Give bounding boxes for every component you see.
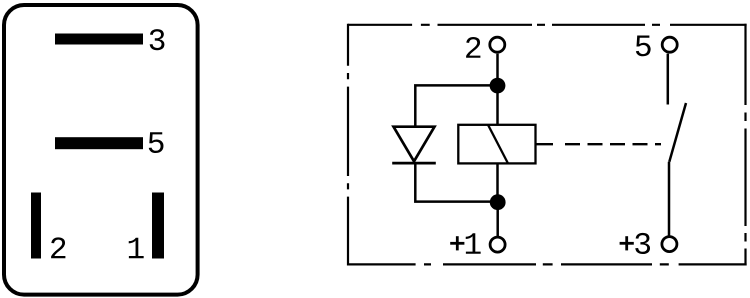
node A junction <box>490 78 506 94</box>
wire relay coil to node B <box>496 164 499 202</box>
pin label 2 <box>51 237 65 258</box>
terminal label +1 digit <box>466 233 481 254</box>
relay enclosure dash-dot boundary: right edge <box>744 24 746 266</box>
wire node A to relay coil <box>496 85 499 124</box>
terminal slot 3 <box>55 34 143 45</box>
terminal label +1 plus sign <box>450 236 464 250</box>
relay coil K1 <box>458 125 535 164</box>
terminal +3 <box>662 237 677 252</box>
wire node A to diode branch <box>415 85 497 125</box>
diode V1 <box>392 127 436 163</box>
relay enclosure dash-dot boundary: top edge <box>348 24 747 26</box>
terminal slot 2 <box>31 193 41 259</box>
terminal label 2 <box>466 37 480 58</box>
terminal label +3 digit <box>635 233 650 254</box>
wire terminal 5 to switch contact <box>667 54 670 105</box>
terminal 2 <box>490 37 505 52</box>
wire terminal 2 to node A <box>496 54 499 86</box>
terminal slot 1 <box>152 193 164 259</box>
wire switch to terminal +3 <box>668 162 671 237</box>
actuation link dashed line <box>536 143 661 145</box>
terminal label +3 plus sign <box>620 236 634 250</box>
terminal 5 <box>662 37 677 52</box>
node B junction <box>490 194 506 210</box>
switch S blade <box>669 103 686 162</box>
relay enclosure dash-dot boundary: left edge <box>347 24 349 266</box>
connector housing outline <box>4 5 198 295</box>
terminal label 5 <box>636 35 651 56</box>
pin label 1 <box>129 238 144 259</box>
wire node B to terminal +1 <box>496 202 499 236</box>
pin label 5 <box>149 132 164 153</box>
wire diode to node B <box>415 163 497 202</box>
pin label 3 <box>150 29 165 50</box>
relay enclosure dash-dot boundary: bottom edge <box>348 263 747 265</box>
terminal slot 5 <box>55 137 143 149</box>
terminal +1 <box>490 237 505 252</box>
